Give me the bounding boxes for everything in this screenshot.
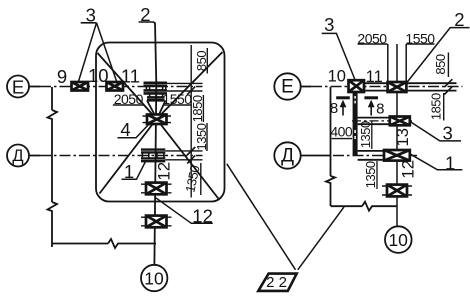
grid circle 10 (right bottom) [385, 226, 412, 253]
svg-text:11: 11 [366, 68, 383, 86]
label 1 (right) [410, 152, 463, 173]
dimension 850 (right, vertical) [433, 53, 448, 78]
svg-text:1850: 1850 [429, 93, 444, 120]
label 3 (left top) [78, 5, 118, 85]
anchor stud right (8) [364, 96, 378, 115]
axis line Д left (dash-dot) [29, 155, 203, 157]
dimension ticks at Д [187, 147, 195, 163]
axis circle Е right [274, 73, 300, 99]
label 3 (right top) [322, 14, 356, 81]
svg-text:12: 12 [154, 162, 173, 181]
svg-text:Е: Е [12, 77, 24, 98]
panel diagonal brace lower-right [157, 119, 220, 200]
svg-text:11: 11 [121, 66, 140, 87]
svg-text:Е: Е [281, 77, 294, 98]
svg-text:12: 12 [398, 160, 417, 179]
section leader line from left view [227, 164, 296, 270]
embed plate 4 [143, 115, 172, 125]
axis circle Д right [274, 142, 300, 168]
svg-text:Д: Д [12, 147, 23, 165]
beam at axis Д (right) [358, 151, 410, 160]
beam lines axis Е to dimension line [167, 83, 203, 91]
label 2 (left top) [139, 4, 155, 25]
svg-text:850: 850 [433, 54, 448, 74]
dimension 1550 (left) [162, 91, 192, 107]
label 4 [118, 119, 151, 140]
axis line Д right (dash-dot) [301, 155, 417, 157]
dimension verticals at top (right) [388, 44, 406, 82]
svg-text:1350: 1350 [182, 164, 202, 194]
svg-text:10: 10 [388, 230, 408, 250]
column (right view, thick) [353, 92, 358, 156]
svg-text:850: 850 [194, 51, 209, 71]
dimension 1350 (left, vertical, lower slanted) [182, 163, 202, 195]
panel outline (rounded rect) [96, 43, 225, 202]
dimension 400 [330, 124, 353, 140]
svg-text:13: 13 [394, 128, 412, 146]
embed plate 10 [107, 82, 124, 91]
bottom reference line with break (right) [331, 202, 398, 211]
panel diagonal brace upper-left [98, 53, 157, 119]
embed plate 12 lower (below panel) [141, 216, 172, 228]
svg-text:1350: 1350 [358, 121, 373, 148]
vertical dimension line (left view) [190, 45, 192, 198]
dimension 2050 (right) [357, 31, 387, 47]
column section at axis Е [144, 83, 168, 101]
svg-text:10: 10 [328, 67, 346, 85]
anchor stud left (8) [336, 96, 350, 115]
section leader line from right view [298, 207, 344, 270]
section mark 2-2 parallelogram [258, 274, 296, 291]
grid circle 10 (left bottom) [141, 265, 167, 291]
label 1 (left) [122, 161, 147, 182]
dimension ticks at Е [187, 80, 195, 95]
dimension 1350 (right, between beams) [358, 121, 373, 149]
label 2 (right top) [407, 9, 470, 83]
middle beam (right view) [352, 118, 412, 125]
embed plate on beam Е (right) [388, 82, 407, 92]
svg-text:1350: 1350 [363, 161, 378, 188]
axis circle Е left [7, 76, 29, 98]
dimension 1550 (right) [405, 31, 435, 47]
bracing line to plate 4 left [147, 101, 155, 115]
label 12 with leader (left bottom) [156, 198, 213, 227]
label 3 (right middle) [410, 122, 461, 144]
embed plate on beam Д (right) [384, 150, 410, 161]
beam at axis Е (right) [364, 83, 457, 90]
embed plate 12 upper (in panel) [141, 183, 172, 195]
column section at axis Д [141, 150, 165, 162]
svg-text:10: 10 [88, 65, 109, 86]
dimension 1850 (left, vertical) [190, 95, 205, 122]
svg-text:9: 9 [57, 66, 67, 87]
svg-text:8: 8 [376, 100, 384, 117]
svg-text:400: 400 [330, 124, 353, 140]
embed plate at column top (right) [349, 80, 365, 92]
axis line Е right (dash-dot) [301, 86, 463, 88]
embed plate 12 (right) [382, 185, 412, 197]
embed plate 9 [72, 82, 89, 91]
wall line with break (right, x=330.5) [326, 87, 335, 206]
svg-text:Д: Д [281, 146, 294, 167]
dimension 1350 (right, lower) [363, 161, 378, 189]
svg-text:10: 10 [144, 269, 164, 289]
panel diagonal brace lower-left [100, 119, 157, 194]
svg-text:2 2: 2 2 [266, 274, 287, 291]
bracing line to plate 4 right [159, 101, 166, 115]
wall line with breaks (left, x=52) [48, 87, 58, 247]
grid line 10 (right view, x=397) [396, 44, 398, 226]
axis circle Д left [7, 145, 29, 167]
column centre line (grid 10, left view) [154, 23, 156, 265]
panel diagonal brace upper-right [157, 52, 223, 119]
svg-text:3: 3 [324, 14, 334, 35]
svg-text:8: 8 [330, 100, 338, 117]
svg-text:4: 4 [120, 119, 130, 140]
dimension 1350 (left, vertical, upper) [194, 123, 209, 151]
bottom reference line with break (left) [52, 239, 156, 248]
dimension ticks at beam Е (right) [444, 79, 452, 94]
dimension 850 (left, vertical) [194, 48, 209, 74]
dimension 2050 (left) [113, 91, 144, 107]
axis line Е left (dash-dot) [29, 86, 203, 88]
dimension 1850 (right, vertical) [429, 93, 444, 121]
beam lines axis Д to dimension line [165, 151, 202, 160]
embed plate on middle beam [390, 117, 410, 126]
